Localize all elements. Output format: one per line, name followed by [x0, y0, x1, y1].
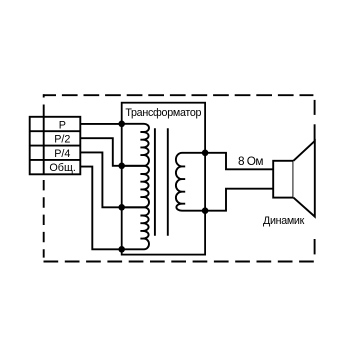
wire W2 : P/2 row to primary tap 2: [80, 138, 121, 166]
primary winding section 1 (tap1-tap2): [122, 124, 149, 166]
wire W4 : Obshch row to primary tap 4: [80, 167, 121, 250]
junction dot tap3: [118, 204, 125, 211]
svg-text:Динамик: Динамик: [263, 215, 305, 227]
amplifier enclosure dashed border : top edge: [43, 94, 313, 96]
junction dot tap2: [118, 163, 125, 170]
transformer core line 1: [154, 128, 156, 236]
secondary winding: [176, 153, 205, 211]
amplifier enclosure dashed border : right edge dash 3: [314, 239, 316, 254]
primary winding section 3 (tap3-tap4): [122, 207, 149, 249]
terminal block divider column: [43, 117, 45, 175]
speaker cone: [293, 141, 314, 217]
terminal block row line 2: [30, 145, 81, 147]
junction dot tap4: [118, 246, 125, 253]
junction dot secondary bottom: [202, 207, 209, 214]
wire secondary bottom to speaker: [205, 189, 273, 211]
junction dot tap1: [118, 121, 125, 128]
svg-text:Общ.: Общ.: [49, 162, 75, 174]
amplifier enclosure dashed border : right edge dash 1: [314, 100, 316, 115]
junction dot secondary top: [202, 150, 209, 157]
svg-text:Трансформатор: Трансформатор: [125, 107, 201, 119]
terminal block row line 1: [30, 130, 81, 132]
primary winding section 2 (tap2-tap3): [122, 166, 149, 207]
svg-text:8 Ом: 8 Ом: [238, 154, 263, 168]
transformer core line 2: [167, 128, 169, 236]
amplifier enclosure dashed border : left edge: [43, 94, 45, 257]
svg-text:Р: Р: [59, 119, 66, 131]
speaker driver rectangle: [273, 161, 293, 198]
amplifier enclosure dashed border : bottom edge: [44, 261, 314, 263]
svg-text:Р/4: Р/4: [54, 148, 70, 160]
wire W1 : P row to primary tap 1: [80, 123, 121, 125]
terminal block row line 3: [30, 159, 81, 161]
amplifier enclosure dashed border : right edge dash 2: [314, 124, 316, 141]
wire secondary top to speaker: [205, 153, 273, 170]
output terminal block outer rect: [30, 117, 81, 175]
wire W3 : P/4 row to primary tap 3: [80, 152, 121, 207]
svg-text:Р/2: Р/2: [54, 134, 70, 146]
transformer box T1: [122, 103, 205, 255]
